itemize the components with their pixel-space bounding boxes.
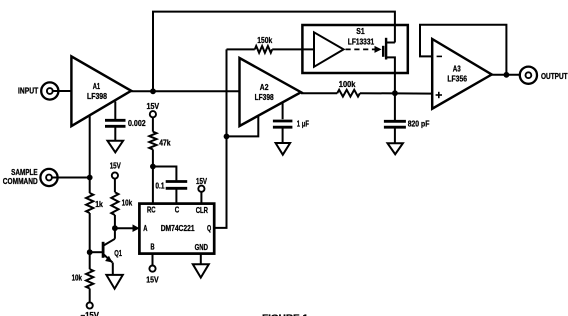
svg-text:S1: S1 xyxy=(356,27,365,36)
svg-text:15V: 15V xyxy=(147,102,160,111)
svg-text:OUTPUT: OUTPUT xyxy=(541,71,568,81)
-15V supply terminal xyxy=(87,302,93,308)
node base junction xyxy=(87,249,93,255)
svg-text:INPUT: INPUT xyxy=(18,86,38,96)
svg-text:A: A xyxy=(143,224,147,233)
svg-text:10k: 10k xyxy=(122,199,133,208)
svg-text:COMMAND: COMMAND xyxy=(3,176,38,186)
svg-text:LF13331: LF13331 xyxy=(348,37,375,46)
transistor Q1 xyxy=(114,228,116,239)
svg-text:A3: A3 xyxy=(453,65,461,74)
op-amp A2 LF398 xyxy=(240,58,302,126)
ground below GND pin xyxy=(200,254,202,265)
svg-text:10k: 10k xyxy=(72,274,83,283)
svg-text:−15V: −15V xyxy=(81,311,100,316)
wire A2 output through 100k to hold node xyxy=(301,92,337,94)
svg-text:15V: 15V xyxy=(146,276,159,285)
node collector/A junction xyxy=(112,225,118,231)
svg-text:1k: 1k xyxy=(95,200,103,209)
svg-text:A2: A2 xyxy=(260,83,269,92)
dashed drive line with arrow xyxy=(346,48,376,50)
wire sample command to divider xyxy=(52,177,90,179)
svg-text:47k: 47k xyxy=(159,139,171,148)
svg-text:B: B xyxy=(151,242,155,251)
resistor R1 1k xyxy=(86,193,93,213)
wire 10k to -15V xyxy=(89,289,91,303)
svg-text:0.002: 0.002 xyxy=(128,119,146,128)
minus sign A3 xyxy=(437,55,442,57)
node A1 output junction xyxy=(150,88,156,94)
wire offset node to A2 lower pin xyxy=(227,116,259,137)
ground below 1uF xyxy=(276,143,291,155)
svg-text:LF398: LF398 xyxy=(255,93,274,102)
wire A3 feedback loop xyxy=(420,25,506,75)
output terminal J3 xyxy=(520,67,537,84)
svg-text:1 μF: 1 μF xyxy=(297,119,309,128)
ground below Q1 emitter xyxy=(106,275,122,289)
op-amp A1 LF398 xyxy=(71,56,131,126)
one-shot U1 DM74C221 xyxy=(139,204,214,254)
wire A-input arrow to one-shot xyxy=(115,227,134,229)
ground below 820pF xyxy=(388,143,403,154)
node hold junction xyxy=(392,90,398,96)
svg-text:GND: GND xyxy=(195,243,209,252)
svg-text:Q: Q xyxy=(207,224,211,233)
svg-text:0.1: 0.1 xyxy=(155,181,164,190)
wire top rail from A1 output node to S1 drain xyxy=(153,12,395,92)
node offset junction xyxy=(224,134,230,140)
svg-text:A1: A1 xyxy=(93,82,101,91)
resistor R4 47k xyxy=(149,132,156,150)
capacitor 1uF hold xyxy=(282,102,284,119)
node RC junction xyxy=(150,164,156,170)
wire A1 logic pin down to sample node xyxy=(89,115,91,193)
capacitor 0.002 on A1 xyxy=(114,102,116,120)
ground below 0.002 xyxy=(108,141,124,153)
JFET switch Q2 xyxy=(382,46,384,57)
svg-text:FIGURE 1: FIGURE 1 xyxy=(262,312,308,316)
wire A3 output xyxy=(492,74,520,76)
wire input to A1 xyxy=(53,90,72,92)
op-amp A3 LF356 xyxy=(432,39,492,109)
node sample junction xyxy=(87,175,93,181)
svg-text:15V: 15V xyxy=(110,162,122,171)
svg-text:Q1: Q1 xyxy=(114,249,122,258)
wire Q output up to feedback node xyxy=(214,49,226,228)
svg-text:CLR: CLR xyxy=(196,206,208,215)
svg-text:LF398: LF398 xyxy=(87,92,107,101)
svg-text:RC: RC xyxy=(147,206,156,215)
svg-text:DM74C221: DM74C221 xyxy=(161,224,195,233)
resistor R5 150k feedback xyxy=(227,48,255,50)
input terminal J1 xyxy=(41,82,58,99)
wire 10k to collector node xyxy=(114,215,116,228)
wire 1k to base node xyxy=(89,213,91,269)
node output junction xyxy=(504,72,510,78)
switch S1 box LF13331 xyxy=(302,25,407,73)
capacitor 820pF xyxy=(394,93,396,120)
svg-text:820 pF: 820 pF xyxy=(408,120,430,129)
wire 47k to RC pin xyxy=(152,149,154,203)
buffer inside S1 xyxy=(314,32,344,67)
svg-text:150k: 150k xyxy=(257,36,272,45)
wire A1 output to A2 input xyxy=(131,90,239,92)
capacitor 0.1 timing xyxy=(153,167,177,181)
svg-text:C: C xyxy=(175,206,180,215)
resistor R2 10k lower xyxy=(86,269,93,288)
plus sign A3 xyxy=(436,94,442,96)
svg-text:100k: 100k xyxy=(339,80,356,89)
resistor R6 100k xyxy=(337,90,360,97)
15V supply terminal below B pin xyxy=(152,254,154,266)
resistor R3 10k pull-up xyxy=(111,192,118,215)
svg-text:LF356: LF356 xyxy=(447,75,467,84)
sample command terminal J2 xyxy=(40,169,57,186)
